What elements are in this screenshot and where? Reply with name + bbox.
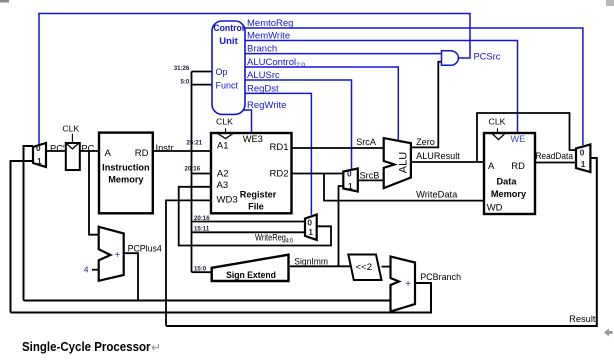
svg-text:WE: WE (510, 134, 525, 144)
svg-text:Single-Cycle Processor: Single-Cycle Processor (22, 339, 151, 354)
svg-text:WD: WD (487, 203, 503, 214)
svg-text:Instruction: Instruction (102, 163, 150, 173)
svg-text:A: A (488, 161, 495, 172)
svg-text:PC′: PC′ (50, 143, 65, 153)
svg-text:Memory: Memory (108, 174, 144, 184)
svg-text:15:11: 15:11 (194, 226, 210, 233)
svg-text:SrcB: SrcB (360, 171, 380, 181)
svg-text:RD2: RD2 (269, 168, 288, 179)
svg-text:PCSrc: PCSrc (474, 51, 501, 61)
svg-text:20:16: 20:16 (194, 215, 210, 222)
svg-text:<<2: <<2 (356, 262, 372, 273)
svg-text:Memory: Memory (491, 189, 527, 199)
svg-text:0: 0 (307, 217, 312, 227)
svg-text:20:16: 20:16 (185, 166, 201, 173)
svg-text:ReadData: ReadData (536, 151, 574, 161)
svg-text:RegWrite: RegWrite (247, 100, 286, 111)
svg-text:Instr: Instr (156, 143, 174, 153)
svg-text:Zero: Zero (416, 137, 435, 147)
svg-text:MemtoReg: MemtoReg (247, 18, 293, 29)
svg-text:Register: Register (240, 190, 277, 200)
svg-text:SignImm: SignImm (294, 257, 328, 267)
svg-text:SrcA: SrcA (356, 137, 377, 147)
svg-text:+: + (114, 250, 120, 261)
svg-text:+: + (405, 279, 411, 290)
svg-text:1: 1 (308, 227, 313, 237)
svg-text:RD: RD (511, 161, 525, 172)
svg-text:Data: Data (497, 177, 518, 187)
svg-text:ALU: ALU (398, 152, 410, 173)
svg-text:MemWrite: MemWrite (247, 31, 290, 42)
svg-text:Funct: Funct (216, 80, 239, 90)
svg-text:A2: A2 (217, 168, 229, 179)
svg-text:WriteData: WriteData (416, 189, 458, 199)
svg-text:31:26: 31:26 (174, 65, 190, 72)
svg-text:A1: A1 (217, 141, 229, 152)
svg-text:Branch: Branch (247, 44, 277, 55)
svg-text:5:0: 5:0 (180, 78, 189, 85)
svg-text:ALUResult: ALUResult (416, 151, 460, 161)
svg-text:Result: Result (569, 314, 596, 324)
svg-text:RegDst: RegDst (247, 83, 279, 94)
svg-text:RD: RD (135, 148, 149, 159)
svg-text:CLK: CLK (62, 124, 79, 134)
svg-text:15:0: 15:0 (194, 266, 207, 273)
svg-text:1: 1 (348, 181, 353, 191)
svg-text:1: 1 (581, 159, 586, 169)
svg-text:0: 0 (347, 168, 352, 178)
svg-text:Unit: Unit (219, 36, 238, 47)
svg-text:PCBranch: PCBranch (420, 272, 461, 282)
svg-text:ALUSrc: ALUSrc (247, 70, 280, 81)
svg-text:25:21: 25:21 (187, 140, 203, 147)
svg-text:↵: ↵ (151, 341, 161, 355)
svg-text:A: A (105, 148, 112, 159)
svg-text:4: 4 (84, 265, 89, 275)
svg-text:PCPlus4: PCPlus4 (128, 244, 162, 254)
svg-text:Op: Op (216, 67, 228, 77)
svg-text:0: 0 (36, 143, 41, 153)
svg-text:CLK: CLK (216, 117, 233, 127)
svg-text:1: 1 (37, 156, 42, 166)
svg-text:WE3: WE3 (243, 134, 263, 144)
svg-text:A3: A3 (217, 180, 229, 191)
svg-text:WD3: WD3 (217, 195, 238, 206)
svg-text:0: 0 (580, 147, 585, 157)
svg-text:Control: Control (213, 23, 244, 34)
svg-text:PC: PC (81, 143, 94, 153)
svg-text:RD1: RD1 (269, 142, 288, 153)
svg-text:Sign Extend: Sign Extend (226, 270, 276, 280)
svg-text:File: File (248, 201, 264, 211)
svg-text:CLK: CLK (489, 117, 506, 127)
